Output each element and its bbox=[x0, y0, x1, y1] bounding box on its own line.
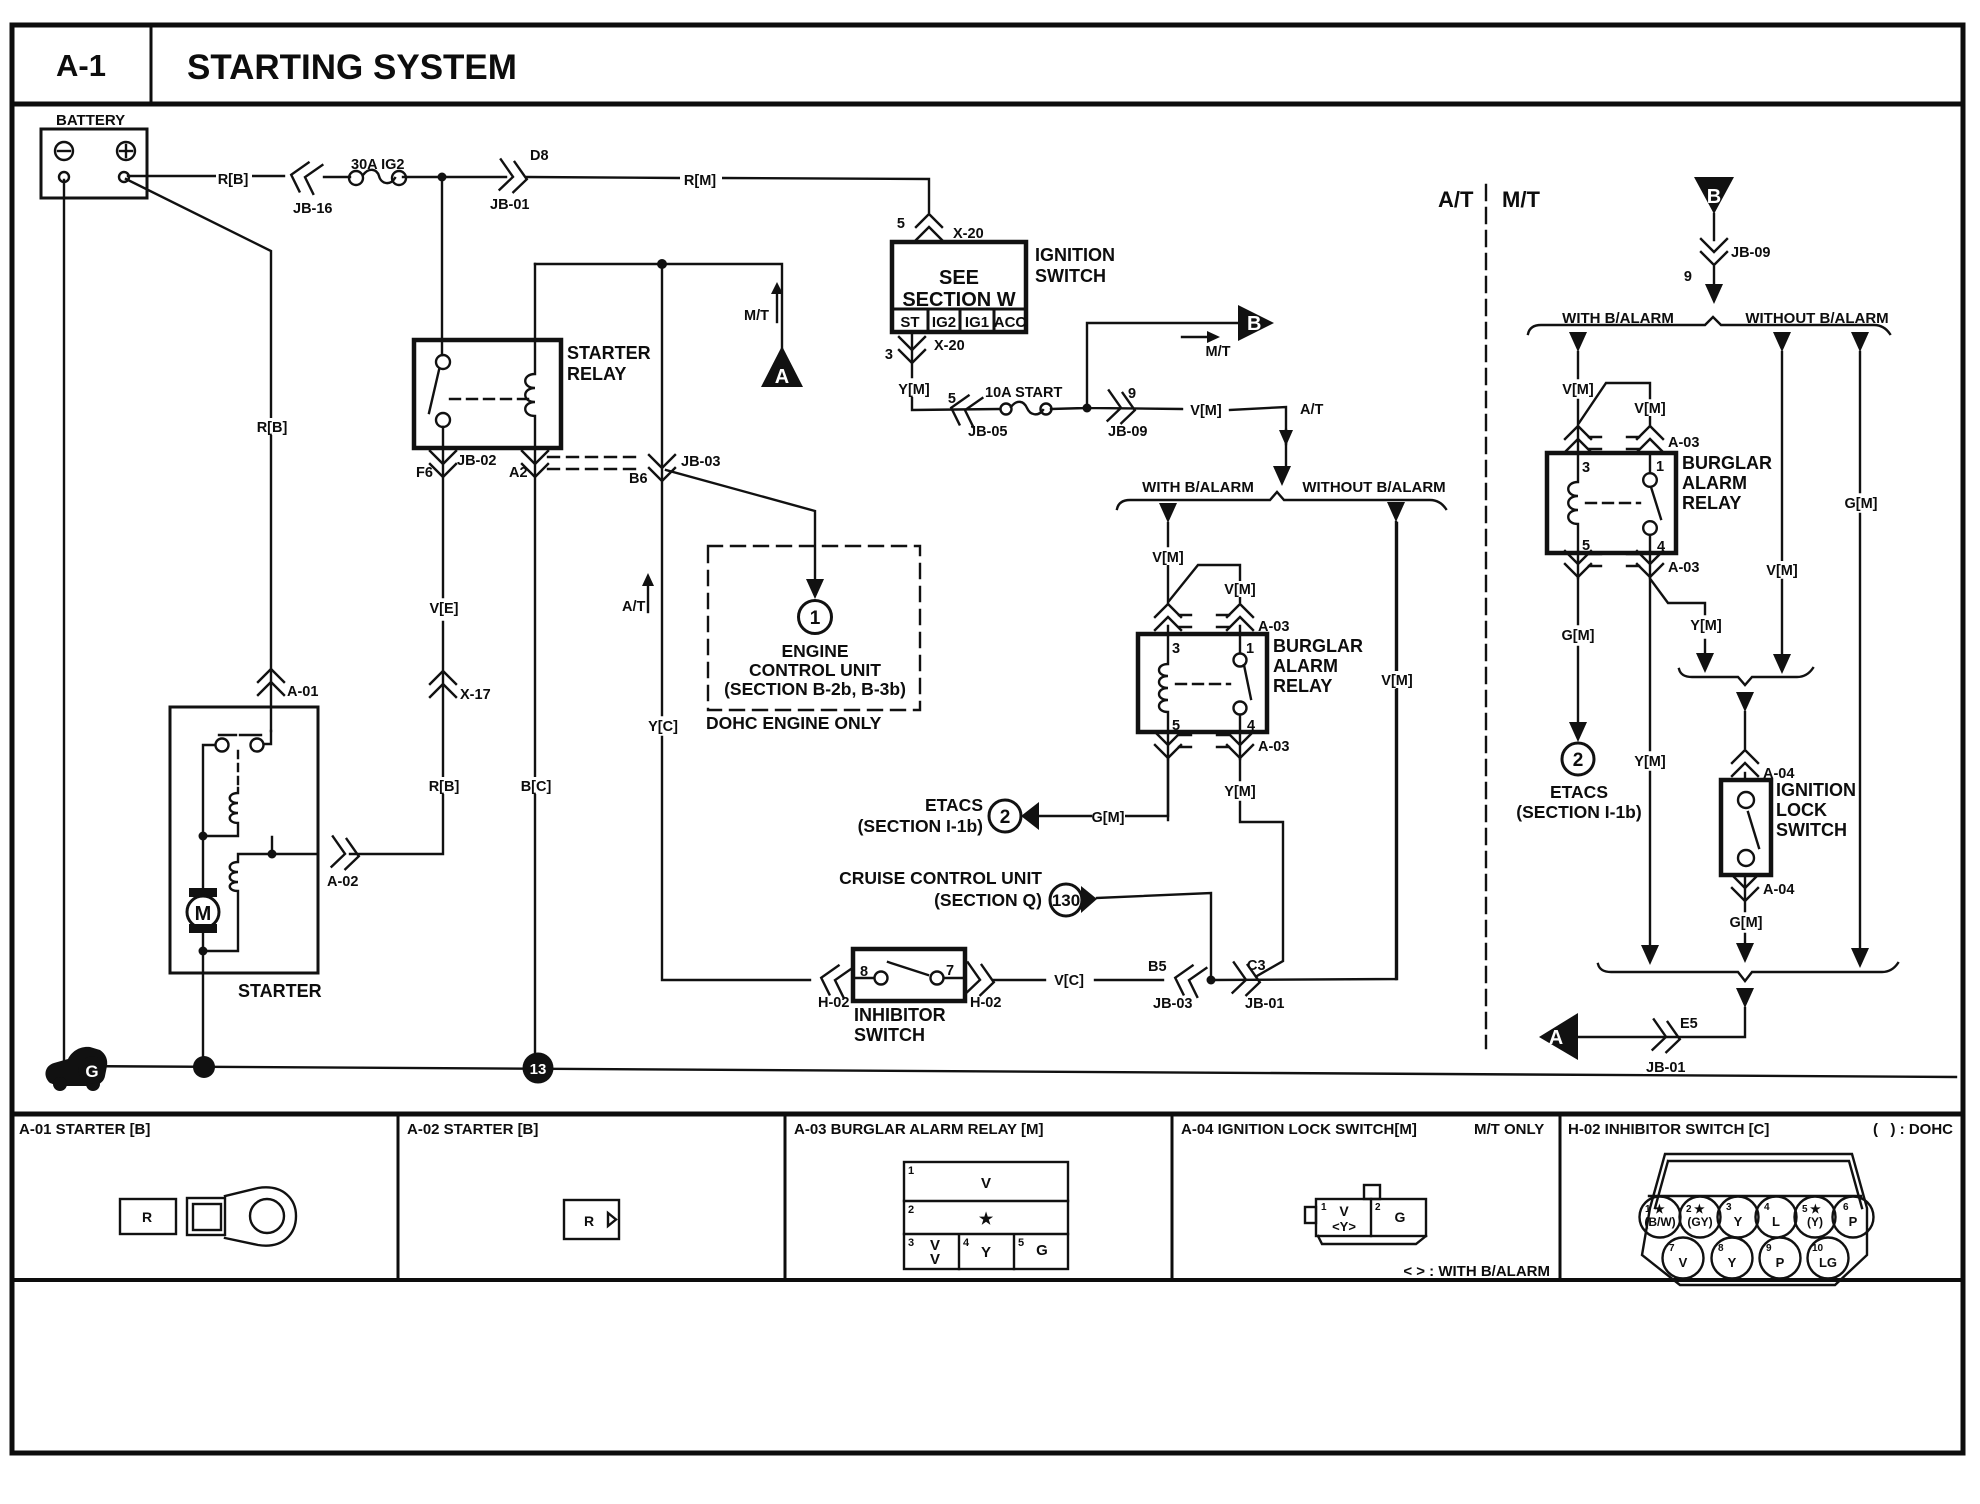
svg-text:INHIBITOR: INHIBITOR bbox=[854, 1005, 946, 1025]
svg-text:IG1: IG1 bbox=[965, 314, 989, 331]
svg-text:X-20: X-20 bbox=[934, 338, 965, 354]
svg-text:STARTING SYSTEM: STARTING SYSTEM bbox=[187, 48, 517, 87]
svg-text:V: V bbox=[981, 1175, 991, 1192]
svg-text:9: 9 bbox=[1766, 1243, 1772, 1254]
svg-text:M/T: M/T bbox=[744, 308, 769, 324]
svg-text:1: 1 bbox=[1645, 1204, 1651, 1215]
svg-text:(SECTION B-2b, B-3b): (SECTION B-2b, B-3b) bbox=[724, 679, 906, 699]
svg-text:V[C]: V[C] bbox=[1054, 973, 1084, 989]
svg-text:Y[M]: Y[M] bbox=[1224, 784, 1256, 800]
svg-text:V[M]: V[M] bbox=[1224, 582, 1256, 598]
svg-text:5: 5 bbox=[1172, 718, 1180, 734]
svg-text:(Y): (Y) bbox=[1807, 1215, 1823, 1229]
svg-text:G: G bbox=[1036, 1242, 1048, 1259]
svg-text:2: 2 bbox=[1375, 1202, 1381, 1213]
svg-text:1: 1 bbox=[1321, 1202, 1327, 1213]
svg-text:8: 8 bbox=[1718, 1243, 1724, 1254]
svg-text:P: P bbox=[1776, 1255, 1785, 1270]
svg-text:R[B]: R[B] bbox=[429, 779, 460, 795]
svg-text:JB-01: JB-01 bbox=[490, 197, 530, 213]
svg-text:A/T: A/T bbox=[622, 599, 646, 615]
svg-text:A-02: A-02 bbox=[327, 874, 358, 890]
svg-text:A-02 STARTER [B]: A-02 STARTER [B] bbox=[407, 1121, 538, 1138]
svg-text:2: 2 bbox=[1573, 750, 1584, 771]
svg-text:(SECTION I-1b): (SECTION I-1b) bbox=[1516, 802, 1641, 822]
svg-text:(B/W): (B/W) bbox=[1644, 1215, 1675, 1229]
svg-text:JB-03: JB-03 bbox=[1153, 996, 1193, 1012]
svg-text:(GY): (GY) bbox=[1687, 1215, 1712, 1229]
svg-text:RELAY: RELAY bbox=[1682, 493, 1741, 513]
svg-text:G[M]: G[M] bbox=[1729, 915, 1762, 931]
svg-text:9: 9 bbox=[1128, 386, 1136, 402]
svg-text:WITH B/ALARM: WITH B/ALARM bbox=[1142, 479, 1254, 496]
svg-text:Y: Y bbox=[1734, 1214, 1743, 1229]
svg-text:V[M]: V[M] bbox=[1152, 550, 1184, 566]
svg-text:6: 6 bbox=[1843, 1202, 1849, 1213]
svg-text:V[M]: V[M] bbox=[1766, 563, 1798, 579]
svg-text:D8: D8 bbox=[530, 148, 549, 164]
svg-text:10A START: 10A START bbox=[985, 385, 1062, 401]
svg-text:F6: F6 bbox=[416, 465, 433, 481]
svg-text:M: M bbox=[195, 903, 212, 925]
svg-text:R: R bbox=[584, 1213, 594, 1229]
svg-text:SEE: SEE bbox=[939, 267, 979, 289]
svg-text:R[B]: R[B] bbox=[218, 172, 249, 188]
svg-text:2: 2 bbox=[1000, 807, 1011, 828]
svg-text:CRUISE CONTROL UNIT: CRUISE CONTROL UNIT bbox=[839, 868, 1042, 888]
svg-text:A-01 STARTER [B]: A-01 STARTER [B] bbox=[19, 1121, 150, 1138]
svg-text:A-03: A-03 bbox=[1258, 739, 1289, 755]
svg-text:G: G bbox=[85, 1062, 98, 1081]
svg-text:3: 3 bbox=[1582, 460, 1590, 476]
svg-text:G: G bbox=[1395, 1209, 1406, 1225]
svg-text:LG: LG bbox=[1819, 1255, 1837, 1270]
svg-text:A: A bbox=[775, 366, 789, 388]
svg-text:13: 13 bbox=[530, 1061, 547, 1078]
svg-text:CONTROL UNIT: CONTROL UNIT bbox=[749, 660, 881, 680]
svg-text:V[M]: V[M] bbox=[1190, 403, 1222, 419]
svg-text:SWITCH: SWITCH bbox=[1776, 820, 1847, 840]
svg-text:SWITCH: SWITCH bbox=[854, 1025, 925, 1045]
svg-text:IGNITION: IGNITION bbox=[1035, 245, 1115, 265]
svg-text:H-02: H-02 bbox=[970, 995, 1001, 1011]
svg-text:ALARM: ALARM bbox=[1682, 473, 1747, 493]
svg-text:STARTER: STARTER bbox=[567, 343, 651, 363]
svg-text:B6: B6 bbox=[629, 471, 648, 487]
svg-text:V: V bbox=[1339, 1203, 1349, 1219]
svg-text:A-04: A-04 bbox=[1763, 882, 1794, 898]
svg-text:E5: E5 bbox=[1680, 1016, 1698, 1032]
svg-text:★: ★ bbox=[979, 1211, 994, 1228]
svg-text:1: 1 bbox=[908, 1165, 914, 1177]
svg-text:130: 130 bbox=[1052, 891, 1080, 910]
svg-text:(SECTION I-1b): (SECTION I-1b) bbox=[858, 816, 983, 836]
svg-text:10: 10 bbox=[1812, 1243, 1824, 1254]
svg-text:★: ★ bbox=[1694, 1202, 1705, 1216]
svg-text:A2: A2 bbox=[509, 465, 528, 481]
svg-text:SWITCH: SWITCH bbox=[1035, 266, 1106, 286]
svg-text:G[M]: G[M] bbox=[1091, 810, 1124, 826]
svg-text:1: 1 bbox=[1246, 641, 1254, 657]
svg-text:RELAY: RELAY bbox=[567, 364, 626, 384]
svg-text:BURGLAR: BURGLAR bbox=[1682, 453, 1772, 473]
svg-text:V: V bbox=[930, 1251, 940, 1268]
svg-text:1: 1 bbox=[810, 608, 821, 629]
svg-text:M/T: M/T bbox=[1502, 187, 1540, 212]
svg-text:V: V bbox=[1679, 1255, 1688, 1270]
svg-text:3: 3 bbox=[1172, 641, 1180, 657]
svg-text:ALARM: ALARM bbox=[1273, 656, 1338, 676]
svg-text:2: 2 bbox=[1686, 1204, 1692, 1215]
svg-text:V[M]: V[M] bbox=[1562, 382, 1594, 398]
svg-text:Y[M]: Y[M] bbox=[898, 382, 930, 398]
svg-text:IGNITION: IGNITION bbox=[1776, 780, 1856, 800]
svg-text:B[C]: B[C] bbox=[521, 779, 552, 795]
svg-text:JB-16: JB-16 bbox=[293, 201, 333, 217]
svg-text:1: 1 bbox=[1656, 459, 1664, 475]
svg-text:M/T: M/T bbox=[1206, 344, 1231, 360]
svg-text:X-20: X-20 bbox=[953, 226, 984, 242]
svg-text:5: 5 bbox=[897, 216, 905, 232]
svg-text:IG2: IG2 bbox=[932, 314, 956, 331]
svg-text:ETACS: ETACS bbox=[925, 795, 983, 815]
svg-text:RELAY: RELAY bbox=[1273, 676, 1332, 696]
svg-text:A: A bbox=[1549, 1027, 1563, 1049]
svg-text:★: ★ bbox=[1654, 1202, 1665, 1216]
svg-text:B: B bbox=[1247, 313, 1261, 335]
svg-text:B: B bbox=[1707, 186, 1721, 208]
svg-text:Y: Y bbox=[981, 1244, 991, 1261]
svg-text:DOHC ENGINE ONLY: DOHC ENGINE ONLY bbox=[706, 713, 882, 733]
svg-text:Y[M]: Y[M] bbox=[1634, 754, 1666, 770]
svg-text:JB-09: JB-09 bbox=[1108, 424, 1148, 440]
svg-text:JB-02: JB-02 bbox=[457, 453, 497, 469]
svg-text:5: 5 bbox=[1018, 1237, 1024, 1249]
svg-text:(SECTION Q): (SECTION Q) bbox=[934, 890, 1042, 910]
svg-text:4: 4 bbox=[1764, 1202, 1770, 1213]
svg-text:G[M]: G[M] bbox=[1561, 628, 1594, 644]
svg-text:A/T: A/T bbox=[1300, 402, 1324, 418]
svg-text:R[M]: R[M] bbox=[684, 173, 716, 189]
svg-text:5: 5 bbox=[948, 391, 956, 407]
svg-text:V[M]: V[M] bbox=[1381, 673, 1413, 689]
svg-text:7: 7 bbox=[946, 963, 954, 979]
svg-text:Y[C]: Y[C] bbox=[648, 719, 678, 735]
svg-text:3: 3 bbox=[908, 1237, 914, 1249]
svg-text:WITHOUT B/ALARM: WITHOUT B/ALARM bbox=[1302, 479, 1445, 496]
svg-text:A/T: A/T bbox=[1438, 187, 1474, 212]
svg-text:STARTER: STARTER bbox=[238, 981, 322, 1001]
svg-text:A-03: A-03 bbox=[1668, 435, 1699, 451]
svg-text:V[M]: V[M] bbox=[1634, 401, 1666, 417]
svg-text:B5: B5 bbox=[1148, 959, 1167, 975]
svg-text:ENGINE: ENGINE bbox=[781, 641, 848, 661]
svg-text:P: P bbox=[1849, 1214, 1858, 1229]
svg-text:7: 7 bbox=[1669, 1243, 1675, 1254]
svg-text:3: 3 bbox=[885, 347, 893, 363]
svg-text:ST: ST bbox=[900, 314, 919, 331]
svg-text:L: L bbox=[1772, 1214, 1780, 1229]
svg-text:JB-01: JB-01 bbox=[1245, 996, 1285, 1012]
svg-text:H-02 INHIBITOR SWITCH [C]: H-02 INHIBITOR SWITCH [C] bbox=[1568, 1121, 1769, 1138]
svg-text:A-04 IGNITION LOCK SWITCH[M]: A-04 IGNITION LOCK SWITCH[M] bbox=[1181, 1121, 1417, 1138]
svg-text:★: ★ bbox=[1810, 1202, 1821, 1216]
svg-text:<Y>: <Y> bbox=[1332, 1219, 1356, 1234]
svg-text:Y: Y bbox=[1728, 1255, 1737, 1270]
svg-text:BURGLAR: BURGLAR bbox=[1273, 636, 1363, 656]
svg-text:5: 5 bbox=[1802, 1204, 1808, 1215]
svg-text:M/T ONLY: M/T ONLY bbox=[1474, 1121, 1544, 1138]
svg-text:JB-01: JB-01 bbox=[1646, 1060, 1686, 1076]
svg-text:G[M]: G[M] bbox=[1844, 496, 1877, 512]
svg-text:BATTERY: BATTERY bbox=[56, 112, 125, 129]
svg-text:V[E]: V[E] bbox=[430, 601, 459, 617]
svg-text:H-02: H-02 bbox=[818, 995, 849, 1011]
svg-text:( ) : DOHC: ( ) : DOHC bbox=[1873, 1121, 1953, 1138]
svg-text:X-17: X-17 bbox=[460, 687, 491, 703]
svg-text:A-03 BURGLAR ALARM RELAY [M]: A-03 BURGLAR ALARM RELAY [M] bbox=[794, 1121, 1043, 1138]
svg-text:< > : WITH B/ALARM: < > : WITH B/ALARM bbox=[1403, 1263, 1550, 1280]
svg-text:Y[M]: Y[M] bbox=[1690, 618, 1722, 634]
svg-text:R[B]: R[B] bbox=[257, 420, 288, 436]
svg-text:A-01: A-01 bbox=[287, 684, 318, 700]
svg-text:JB-09: JB-09 bbox=[1731, 245, 1771, 261]
svg-text:LOCK: LOCK bbox=[1776, 800, 1827, 820]
svg-text:JB-03: JB-03 bbox=[681, 454, 721, 470]
svg-text:4: 4 bbox=[963, 1237, 970, 1249]
svg-text:9: 9 bbox=[1684, 269, 1692, 285]
svg-text:2: 2 bbox=[908, 1204, 914, 1216]
svg-text:A-1: A-1 bbox=[56, 48, 106, 83]
svg-text:A-03: A-03 bbox=[1668, 560, 1699, 576]
svg-text:3: 3 bbox=[1726, 1202, 1732, 1213]
svg-text:ETACS: ETACS bbox=[1550, 782, 1608, 802]
svg-text:JB-05: JB-05 bbox=[968, 424, 1008, 440]
svg-text:ACC: ACC bbox=[994, 314, 1027, 331]
svg-text:R: R bbox=[142, 1209, 152, 1225]
